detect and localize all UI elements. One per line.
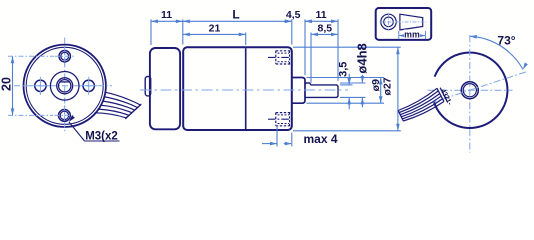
ext line max4 right [291,133,293,147]
dim max4 line [262,143,277,145]
M3 hole bottom inner [60,111,68,119]
ext line shaft top [340,82,366,84]
front view inner rim [26,47,103,124]
hidden M3 tapping bottom [276,112,292,114]
dim o4h8 line [361,75,363,83]
projection symbol frustum [400,14,423,30]
svg-text:11: 11 [161,9,172,21]
rear wire cut end [398,111,403,122]
svg-text:L: L [232,7,239,21]
dim 21 line [183,33,246,35]
ext line body right [291,19,293,44]
M3 hole bottom crosshair h [54,114,74,116]
dim 73deg arc [470,36,523,69]
dim o27 arrows [396,47,400,54]
projection symbol circle inner [384,17,394,27]
dim 8,5 arrows [311,33,318,37]
M3 hole bottom outer [59,110,71,122]
ext line boss bottom [307,102,385,104]
dim 73deg arrow bottom [523,63,528,70]
ext line body bottom right [293,130,401,132]
dim 20 ext top [8,55,54,57]
M3 hole bottom crosshair v [63,105,65,127]
motor-gearbox joint line [245,48,247,129]
svg-text:21: 21 [209,22,221,34]
ext line flat top [340,84,353,86]
front view wire bundle [105,92,141,105]
dim 4,5 arrows [285,20,292,24]
ext line shaft bottom [340,96,366,98]
rear hub inner [463,84,476,97]
rear hub outer [461,82,478,99]
shaft centerline [140,89,348,91]
dim 20 arrow bottom [11,108,15,115]
svg-text:max 4: max 4 [303,132,337,146]
dim 3,5 line [348,74,350,85]
svg-text:ø27: ø27 [381,77,393,95]
front view wire cut end [125,104,141,119]
projection symbol crosshair [380,21,398,23]
dim 20 ext bottom [8,114,53,116]
svg-text:11: 11 [315,9,326,21]
rear cap wire tab [145,77,151,96]
output shaft flat chord [60,81,70,83]
output shaft D-profile [58,80,70,92]
svg-text:mm: mm [404,30,420,40]
ext line body left [182,19,184,44]
M3 hole top crosshair v [64,46,66,66]
dim 11 rear line [151,20,183,22]
units mm line [399,35,426,37]
dim 20 arrow top [11,56,15,63]
label M3(x2 leader arrow [69,115,75,122]
wire exit axis 73deg [430,71,528,103]
side hole left [35,80,46,91]
rear view horizontal centerline [428,89,513,91]
units mm label [404,30,420,39]
projection symbol box [376,8,432,40]
dim o27 line [397,47,399,131]
units mm ticks [398,31,400,39]
dim 11 shaft line [305,20,338,22]
dim o9 line [380,78,382,104]
M3 hole top crosshair h [55,55,75,57]
svg-text:3,5: 3,5 [338,62,350,77]
side hole right [83,80,94,91]
units mm arrows [399,34,405,37]
dim L arrows [183,20,190,24]
svg-text:M3(x2: M3(x2 [85,130,118,142]
motor gearbox body [183,47,292,130]
dim 73deg arrow top [470,35,477,39]
dim 4,5 line [284,20,292,22]
M3 hole top outer [59,51,70,62]
dim 21 arrows [183,33,190,37]
output shaft [305,83,338,97]
ext line max4 left [276,126,278,147]
rear wire bundle [398,88,437,110]
svg-text:8,5: 8,5 [317,22,332,34]
output boss [292,78,305,104]
rear view vertical centerline [469,35,471,152]
ext line shaft tip [337,19,339,81]
dim 3,5 arrows [347,78,351,85]
output shaft bushing circle [57,78,73,94]
output hub boss circle [50,72,79,101]
dim 11 rear arrows [151,20,158,24]
ext line 21 right [245,32,247,45]
front view outer rim [23,45,105,127]
rear wire sleeve bars [437,88,444,101]
front view vertical centerline [64,38,66,134]
ext line flat start [310,32,312,82]
svg-text:73°: 73° [497,33,515,47]
hidden M3 tapping top [276,50,292,52]
dim o4h8 arrows [361,76,365,83]
dim max4 arrows [270,142,277,146]
dim L line [183,20,291,22]
dim 20 line [12,56,14,115]
ext line cap left [150,19,152,45]
side hole left cross [32,85,50,87]
rear cap [150,48,180,129]
svg-text:ø9: ø9 [370,79,382,91]
M3 hole top inner [61,52,69,60]
dim o9 arrows [379,78,383,85]
svg-text:20: 20 [0,77,14,91]
label M3(x2 leader [69,122,85,141]
dim 8,5 line [311,33,338,35]
ext line boss right [304,19,306,75]
svg-text:4,5: 4,5 [286,9,301,21]
ext line body top right [293,46,401,48]
svg-text:ø4h8: ø4h8 [354,43,369,73]
ext line boss top [307,77,385,79]
dim 11 shaft arrows [305,20,312,24]
side hole right cross [80,85,98,87]
front view horizontal centerline [14,85,112,87]
rear view rim [434,53,508,128]
projection symbol circle outer [381,14,396,29]
projection symbol frustum axis [397,21,427,23]
